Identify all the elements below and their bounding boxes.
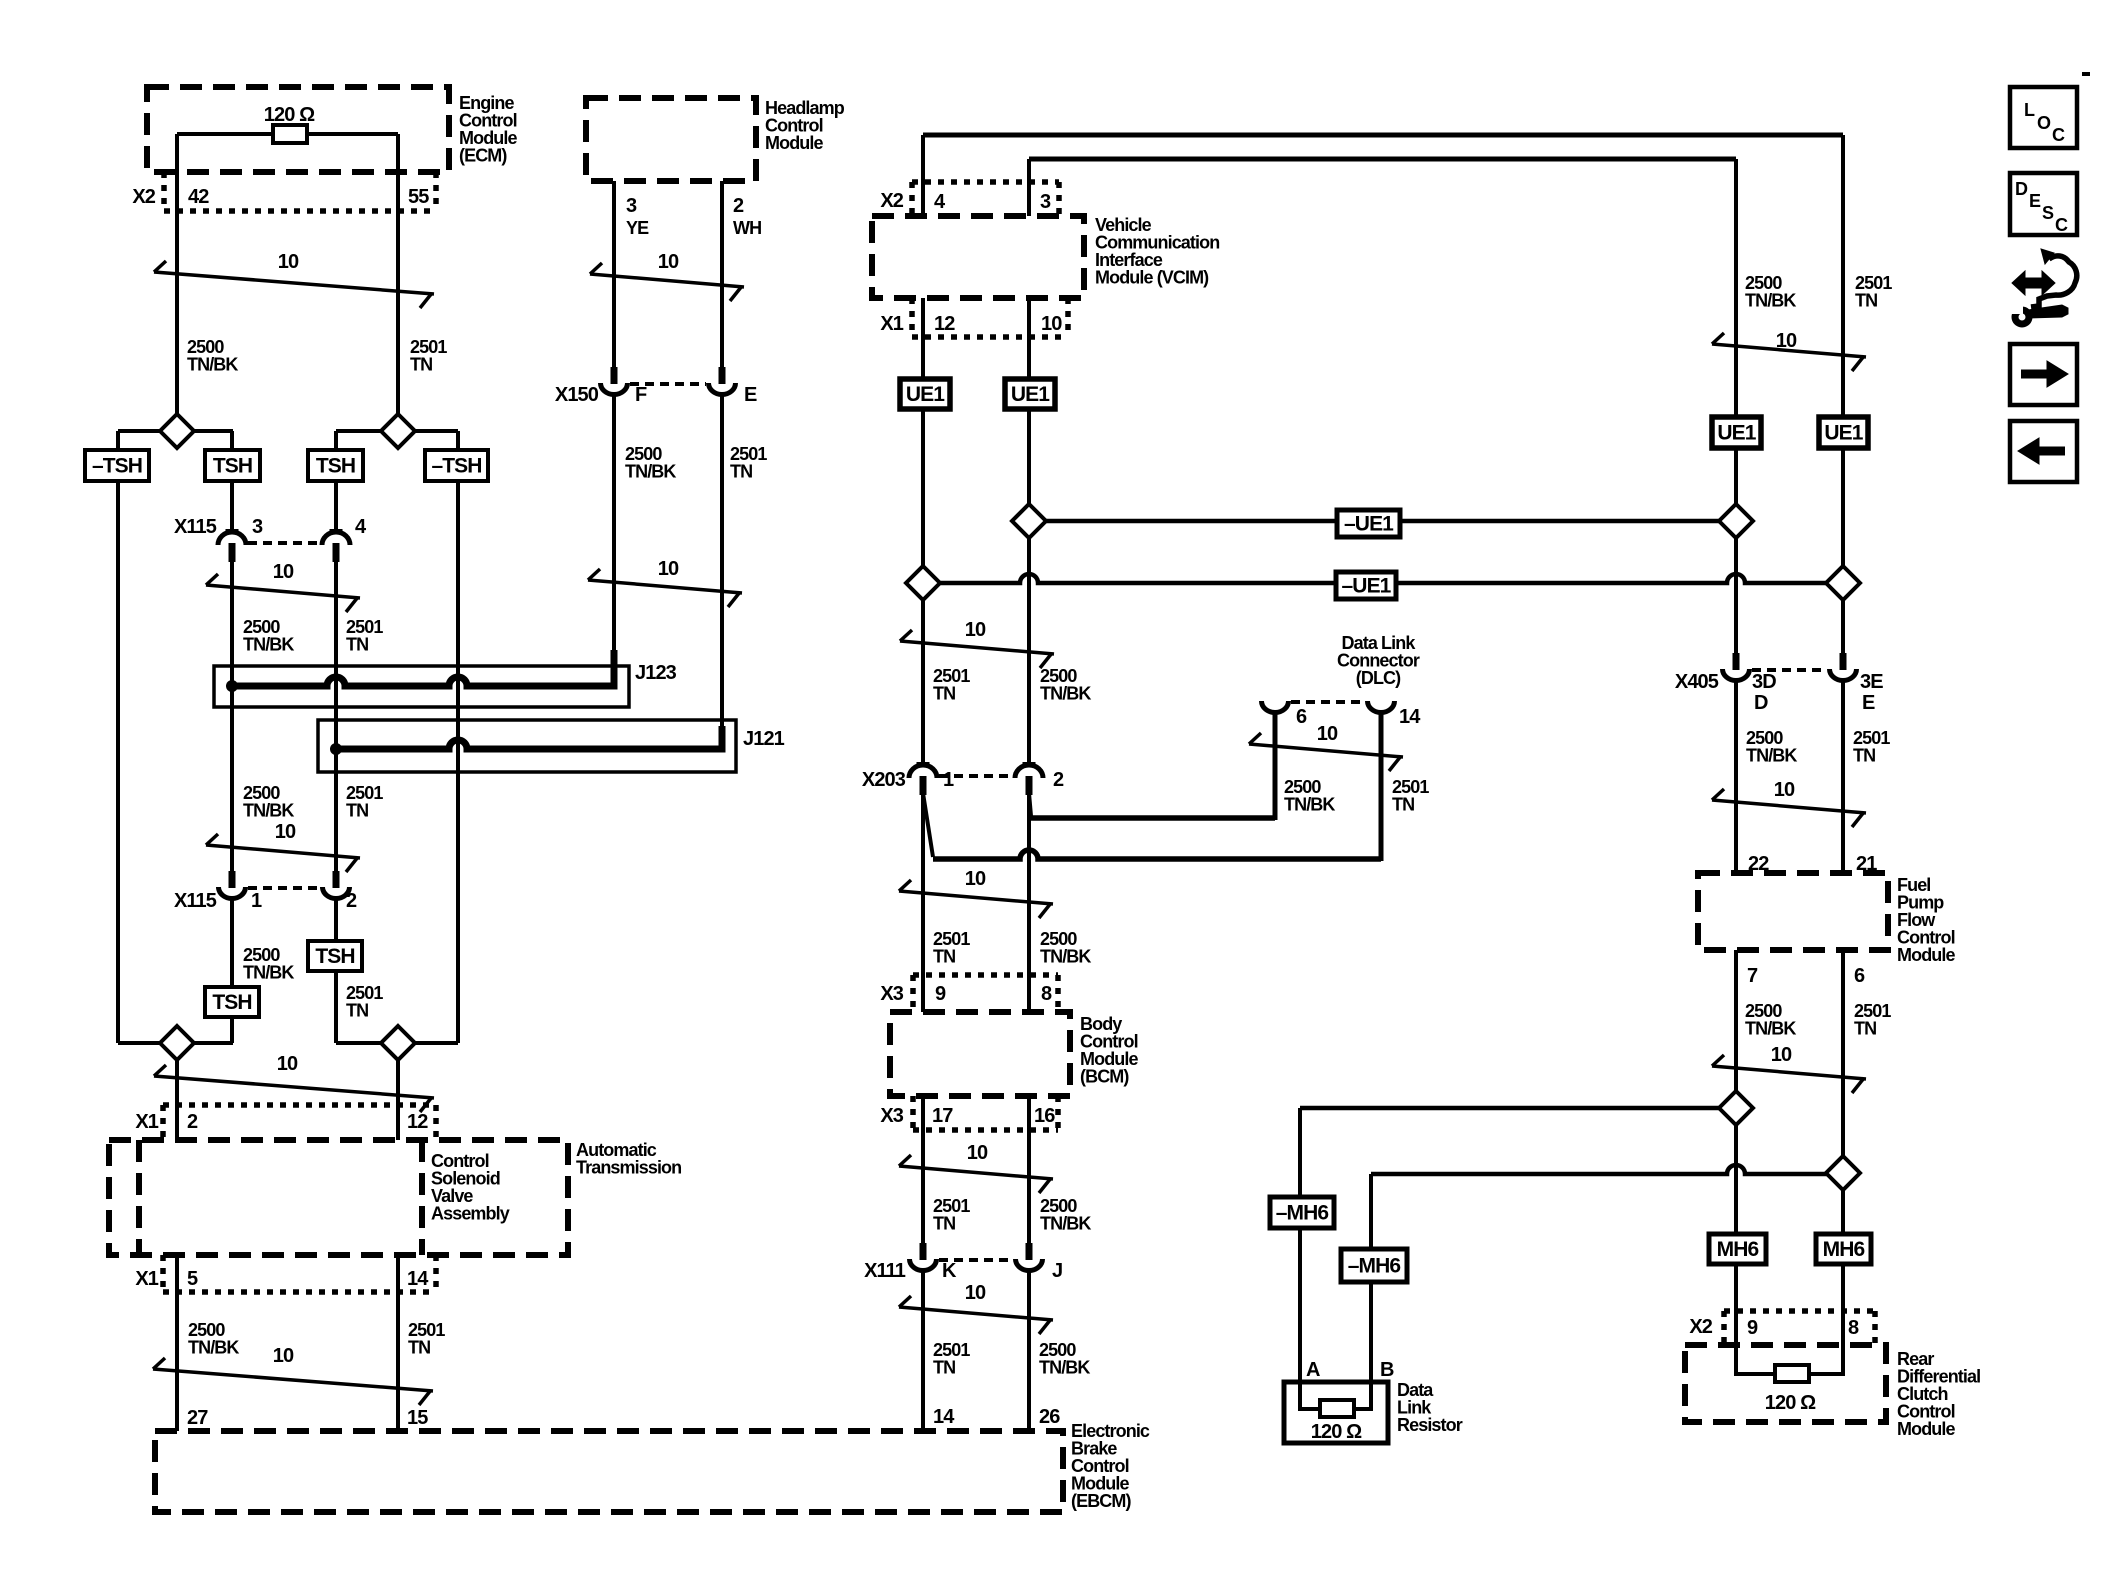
svg-text:X405: X405: [1675, 671, 1719, 693]
wire branch X203-1 jog to DLC run: [923, 793, 933, 857]
net box UE1 (right column right): [1819, 417, 1868, 448]
wire 2501 TN X111-K down to EBCM pin 14: [921, 1271, 925, 1431]
wire 2500 TN/BK X150-F down to J123: [612, 395, 616, 650]
svg-text:UE1: UE1: [1717, 422, 1756, 445]
icon button forward arrow: [2010, 344, 2077, 405]
connector row BCM X3 lower: [910, 1096, 916, 1130]
wire TSH lower-mid to splice bar S4: [334, 971, 338, 1043]
module box: Body Control Module (BCM): [890, 1012, 1070, 1096]
wire VCIM X2 pin 4 riser: [921, 135, 925, 216]
junction bus bar J121: [336, 726, 722, 749]
wire 2501 TN run to DLC pin 14: [933, 850, 1381, 859]
svg-text:D: D: [2015, 179, 2028, 199]
svg-text:14: 14: [1399, 706, 1421, 728]
wire data link resistor pin B lead: [1354, 1382, 1371, 1409]
svg-text:10: 10: [658, 558, 679, 580]
splice S5 (2500 TN/BK): [1012, 504, 1046, 538]
connector dash X405: [1752, 668, 1827, 672]
wire 2501 TN VCIM X2-4 top run to right column: [923, 133, 1843, 138]
svg-text:10: 10: [273, 561, 294, 583]
wire 2500 TN/BK run to DLC pin 6: [1031, 815, 1275, 821]
svg-text:YE: YE: [626, 218, 649, 238]
wire ECM internal horizontal to resistor: [177, 132, 273, 136]
icon button back arrow: [2010, 421, 2077, 482]
wire 2501 TN X115-2 to TSH box: [334, 899, 338, 941]
svg-text:2: 2: [346, 890, 357, 912]
svg-text:TN: TN: [933, 684, 955, 704]
inline connector DLC pin 6: [1262, 701, 1289, 713]
svg-text:J: J: [1052, 1260, 1062, 1282]
svg-text:TN/BK: TN/BK: [243, 635, 294, 655]
wire TSH lower-left to splice bar S3: [230, 1017, 234, 1043]
svg-text:2: 2: [187, 1111, 198, 1133]
splice S1 (2500 TN/BK): [160, 414, 194, 448]
wire size marker 10 (above X115 lower): [206, 845, 360, 858]
svg-text:26: 26: [1039, 1406, 1060, 1428]
connector dash X150: [630, 382, 706, 386]
wire 2500 TN/BK X111-J down to EBCM pin 26: [1027, 1271, 1031, 1431]
svg-text:27: 27: [187, 1407, 208, 1429]
svg-text:8: 8: [1041, 983, 1052, 1005]
svg-text:8: 8: [1848, 1317, 1859, 1339]
svg-text:3D: 3D: [1752, 671, 1776, 693]
inline connector X150 pin E: [719, 367, 726, 384]
wire 2500 TN/BK X115-3 down through J123: [230, 561, 234, 871]
wire -MH6 A run to splice S9: [1300, 1106, 1736, 1111]
svg-text:120 Ω: 120 Ω: [1765, 1392, 1816, 1414]
wire rear diff internal pin 8 lead: [1809, 1345, 1843, 1374]
wire 2500 TN/BK from ECM X2 pin 42 down to splice S1: [175, 134, 179, 414]
inline connector DLC pin 14: [1368, 701, 1395, 713]
svg-text:MH6: MH6: [1717, 1238, 1759, 1261]
net box TSH (lower left): [205, 987, 259, 1017]
wire splice bar S1 to TSH branches: [118, 429, 233, 433]
wire size marker 10 (below fuel pump): [1712, 1066, 1866, 1079]
svg-text:10: 10: [1771, 1044, 1792, 1066]
svg-text:L: L: [2024, 100, 2035, 120]
svg-text:4: 4: [934, 191, 946, 213]
svg-text:TN/BK: TN/BK: [1745, 1019, 1796, 1039]
page mark (top right): [2082, 72, 2090, 76]
svg-text:TN: TN: [1853, 746, 1875, 766]
wire 2500 TN/BK BCM X3-16 down to X111 J: [1027, 1096, 1031, 1243]
module box: Fuel Pump Flow Control Module: [1698, 873, 1888, 950]
splice S4 (2501 TN): [381, 1026, 415, 1060]
inline connector X115 pin 2: [333, 871, 340, 888]
svg-text:TN/BK: TN/BK: [1746, 746, 1797, 766]
svg-text:–UE1: –UE1: [1344, 513, 1394, 536]
icon quick-link double arrow: [2012, 271, 2055, 295]
svg-text:B: B: [1380, 1359, 1394, 1381]
svg-text:TN: TN: [346, 1001, 368, 1021]
svg-text:X2: X2: [132, 186, 155, 208]
net box UE1 (right): [1005, 379, 1055, 409]
wire -MH6 B to data link resistor pin B: [1369, 1282, 1373, 1382]
wire 2501 TN X150-E down to J121: [720, 395, 724, 727]
svg-text:TSH: TSH: [212, 991, 251, 1014]
wire size marker 10 (above fuel pump): [1712, 800, 1866, 813]
svg-text:10: 10: [658, 251, 679, 273]
wire splice S3 down to transmission X1 pin 2: [175, 1043, 179, 1140]
component box: Data Link Resistor: [1284, 1382, 1388, 1443]
svg-text:TN: TN: [346, 801, 368, 821]
connector row BCM X3 upper: [913, 972, 1058, 978]
svg-text:WH: WH: [733, 218, 761, 238]
wire size marker 10 (above BCM): [899, 891, 1053, 904]
svg-text:–UE1: –UE1: [1342, 575, 1392, 598]
svg-text:X3: X3: [880, 983, 903, 1005]
svg-text:16: 16: [1034, 1105, 1055, 1127]
svg-text:TN: TN: [933, 1358, 955, 1378]
inline connector X203 pin 1: [917, 762, 930, 766]
svg-text:–MH6: –MH6: [1276, 1202, 1329, 1225]
svg-text:17: 17: [932, 1105, 953, 1127]
svg-text:1: 1: [251, 890, 262, 912]
svg-text:42: 42: [188, 186, 209, 208]
connector row VCIM X1: [909, 298, 915, 337]
svg-text:(DLC): (DLC): [1356, 668, 1401, 688]
wire 2501 TN BCM X3-17 down to X111 K: [921, 1096, 925, 1243]
net box TSH (mid): [308, 450, 363, 481]
module box: Control Solenoid Valve Assembly inner edges: [136, 1140, 142, 1255]
wire -TSH left rail down to splice S3 bar: [116, 481, 120, 1043]
svg-text:Resistor: Resistor: [1397, 1415, 1463, 1435]
connector dash X115 upper: [248, 541, 320, 545]
svg-text:(EBCM): (EBCM): [1071, 1491, 1131, 1511]
wire size marker 10 (above transmission): [154, 1076, 434, 1098]
svg-text:TN: TN: [346, 635, 368, 655]
wire 2500 TN/BK right riser from top run: [1734, 159, 1738, 417]
svg-text:TN/BK: TN/BK: [243, 801, 294, 821]
svg-text:14: 14: [407, 1268, 429, 1290]
wire 2501 TN X115-4 down through J121: [334, 561, 338, 871]
wire size marker 10 (transmission out): [153, 1369, 433, 1391]
svg-text:10: 10: [1776, 330, 1797, 352]
net box UE1 (right column left): [1712, 417, 1761, 448]
svg-text:4: 4: [355, 516, 367, 538]
svg-text:TN: TN: [410, 355, 432, 375]
svg-text:10: 10: [273, 1345, 294, 1367]
module box: Automatic Transmission: [109, 1140, 568, 1255]
svg-text:TN/BK: TN/BK: [1040, 947, 1091, 967]
wire MH6 to rear diff X2 pin 8: [1841, 1264, 1845, 1345]
wire UE1 to X405 pin 3E: [1841, 448, 1845, 653]
svg-text:10: 10: [965, 619, 986, 641]
svg-text:120 Ω: 120 Ω: [1311, 1421, 1362, 1443]
svg-text:10: 10: [1041, 313, 1062, 335]
svg-text:120 Ω: 120 Ω: [264, 104, 315, 126]
svg-text:TN/BK: TN/BK: [625, 462, 676, 482]
svg-text:TN: TN: [933, 947, 955, 967]
svg-text:5: 5: [187, 1268, 198, 1290]
inline connector X115 pin 1: [229, 871, 236, 888]
svg-text:J123: J123: [635, 662, 677, 684]
wire 2501 TN right riser from top run: [1841, 135, 1845, 417]
wire TSH left down to X115 pin 3: [230, 481, 234, 531]
net box -MH6 (lower): [1341, 1249, 1407, 1282]
inline connector X203 pin 2: [1023, 762, 1036, 766]
splice S9 (2500 TN/BK lower): [1719, 1091, 1753, 1125]
inline connector X405 pin 3D: [1733, 653, 1740, 670]
svg-text:Module: Module: [765, 133, 823, 153]
icon quick-link curved route arrow: [2041, 249, 2054, 264]
wire 2501 TN X203-1 down to BCM X3 pin 9: [921, 794, 925, 1012]
wire rear diff internal pin 9 lead: [1736, 1345, 1775, 1374]
svg-text:TN/BK: TN/BK: [1039, 1358, 1090, 1378]
net box MH6 (right): [1816, 1234, 1871, 1264]
svg-text:C: C: [2052, 125, 2065, 145]
svg-text:10: 10: [277, 1053, 298, 1075]
svg-text:TN/BK: TN/BK: [1284, 795, 1335, 815]
wire 2501 TN X405-E to fuel pump pin 21: [1841, 681, 1845, 873]
svg-text:Module (VCIM): Module (VCIM): [1095, 268, 1209, 288]
splice S10 (2501 TN lower): [1826, 1156, 1860, 1190]
svg-text:Module: Module: [1897, 945, 1955, 965]
svg-text:X150: X150: [555, 384, 599, 406]
resistor R-RDM 120 ohm: [1775, 1365, 1809, 1382]
svg-text:6: 6: [1296, 706, 1307, 728]
svg-text:TN/BK: TN/BK: [1040, 684, 1091, 704]
wire WH from headlamp pin 2 to X150 E: [720, 181, 724, 367]
svg-text:TN/BK: TN/BK: [187, 355, 238, 375]
svg-text:2: 2: [1053, 769, 1064, 791]
svg-text:3: 3: [252, 516, 263, 538]
connector dash X115 lower: [248, 886, 320, 890]
svg-text:X1: X1: [135, 1268, 158, 1290]
svg-text:Assembly: Assembly: [431, 1204, 510, 1224]
wire 2500 TN/BK transmission to EBCM pin 27: [175, 1255, 179, 1431]
wire -MH6 B riser: [1369, 1174, 1373, 1249]
wire splice S4 down to transmission X1 pin 12: [396, 1043, 400, 1140]
svg-text:TSH: TSH: [316, 455, 355, 478]
wire size marker 10 (VCIM out): [900, 641, 1054, 654]
svg-text:TSH: TSH: [213, 455, 252, 478]
svg-text:X2: X2: [880, 190, 903, 212]
svg-text:TN/BK: TN/BK: [1745, 291, 1796, 311]
wire splice bar S4: [336, 1041, 458, 1045]
svg-text:55: 55: [408, 186, 429, 208]
svg-text:TN: TN: [408, 1338, 430, 1358]
svg-text:TN: TN: [933, 1214, 955, 1234]
svg-text:TN: TN: [1855, 291, 1877, 311]
net box -TSH (mid right): [425, 450, 488, 481]
svg-text:S: S: [2042, 203, 2054, 223]
svg-text:TN/BK: TN/BK: [1040, 1214, 1091, 1234]
inline connector X150 pin F: [611, 367, 618, 384]
wire -MH6 B run to splice S10: [1371, 1165, 1843, 1174]
wire size marker 10 (below BCM): [899, 1166, 1053, 1179]
resistor R-ECM 120 ohm: [273, 125, 307, 143]
icon quick-link wrench: [2015, 310, 2029, 324]
splice S8 (2501 TN right): [1826, 566, 1860, 600]
svg-text:MH6: MH6: [1823, 1238, 1865, 1261]
svg-text:C: C: [2055, 215, 2068, 235]
svg-text:K: K: [942, 1260, 957, 1282]
wire VCIM X2 pin 3 riser: [1027, 159, 1031, 216]
svg-text:F: F: [635, 384, 647, 406]
svg-text:X1: X1: [135, 1111, 158, 1133]
module box: Electronic Brake Control Module (EBCM): [155, 1431, 1063, 1512]
svg-text:12: 12: [934, 313, 955, 335]
svg-text:TN: TN: [730, 462, 752, 482]
svg-text:X3: X3: [880, 1105, 903, 1127]
svg-text:7: 7: [1747, 965, 1758, 987]
junction dot J121: [330, 743, 342, 755]
icon button DESC: [2010, 173, 2077, 235]
wire YE from headlamp pin 3 to X150 F: [612, 181, 616, 367]
svg-text:10: 10: [278, 251, 299, 273]
wire -MH6 A riser: [1298, 1108, 1302, 1197]
inline connector X115 pin 4: [330, 529, 343, 533]
net box MH6 (left): [1709, 1234, 1766, 1264]
svg-text:A: A: [1306, 1359, 1320, 1381]
icon button LOC: [2010, 87, 2077, 148]
svg-text:10: 10: [1774, 779, 1795, 801]
svg-text:10: 10: [967, 1142, 988, 1164]
junction dot J123: [226, 680, 238, 692]
wire -UE1 lower run to right column: [923, 574, 1843, 583]
splice S3 (2500 TN/BK): [160, 1026, 194, 1060]
svg-text:3: 3: [626, 195, 637, 217]
svg-text:UE1: UE1: [1011, 383, 1050, 406]
inline connector X405 pin 3E: [1840, 653, 1847, 670]
svg-text:10: 10: [1317, 723, 1338, 745]
svg-text:Transmission: Transmission: [576, 1158, 681, 1178]
wire size marker 10 (headlamp): [590, 274, 744, 287]
svg-text:6: 6: [1854, 965, 1865, 987]
connector row transmission X1 upper: [163, 1102, 436, 1108]
wire size marker 10 (right top): [1712, 344, 1866, 357]
wire splice bar S2 to TSH branches: [336, 429, 458, 433]
net box -TSH (far left): [85, 450, 149, 481]
svg-text:–TSH: –TSH: [92, 455, 142, 478]
svg-text:E: E: [2029, 191, 2041, 211]
svg-text:12: 12: [407, 1111, 428, 1133]
svg-text:–TSH: –TSH: [431, 455, 481, 478]
svg-text:TN/BK: TN/BK: [243, 963, 294, 983]
svg-text:1: 1: [943, 769, 954, 791]
svg-text:10: 10: [965, 868, 986, 890]
wire size marker 10 (above EBCM): [899, 1307, 1053, 1320]
svg-text:TSH: TSH: [315, 945, 354, 968]
svg-text:3E: 3E: [1860, 671, 1883, 693]
wire 2500 TN/BK VCIM X2-3 top run to right column: [1029, 157, 1736, 162]
svg-text:14: 14: [933, 1406, 955, 1428]
wire size marker 10 (ECM pair): [154, 272, 434, 294]
svg-text:10: 10: [965, 1282, 986, 1304]
wire UE1 to X405 pin 3D: [1734, 448, 1738, 653]
svg-text:–MH6: –MH6: [1348, 1255, 1401, 1278]
wire TSH mid down to X115 pin 4: [334, 481, 338, 531]
inline connector X115 pin 3: [226, 529, 239, 533]
wire 2501 TN from ECM X2 pin 55 down to splice S2: [396, 134, 400, 414]
splice S7 (2500 TN/BK right): [1719, 504, 1753, 538]
wire -UE1 upper run to right column: [1029, 519, 1736, 524]
connector dash X203: [939, 774, 1013, 778]
inline connector X111 pin K: [920, 1243, 927, 1260]
resistor R-DLR 120 ohm: [1320, 1400, 1354, 1417]
wire 2501 TN transmission to EBCM pin 15: [396, 1255, 400, 1431]
svg-text:X203: X203: [862, 769, 906, 791]
wire -TSH right rail down to splice S4 bar: [456, 481, 460, 1043]
wire size marker 10 (DLC): [1249, 744, 1403, 757]
net box -MH6 (upper): [1270, 1197, 1334, 1228]
junction bus bar J123: [232, 663, 614, 686]
svg-text:TN/BK: TN/BK: [188, 1338, 239, 1358]
svg-text:10: 10: [275, 821, 296, 843]
junction block J121 outline: [318, 720, 736, 772]
module box: Engine Control Module (ECM): [147, 87, 449, 172]
net box -UE1 (upper): [1337, 510, 1400, 537]
svg-text:15: 15: [407, 1407, 428, 1429]
junction block J123 outline: [214, 666, 629, 707]
connector row VCIM X2: [912, 179, 1059, 185]
wire fuel pump pin 7 down to MH6: [1734, 950, 1738, 1234]
svg-text:UE1: UE1: [1824, 422, 1863, 445]
wire fuel pump pin 6 down to MH6: [1841, 950, 1845, 1234]
svg-text:X115: X115: [174, 890, 217, 912]
svg-text:J121: J121: [743, 728, 785, 750]
splice S6 (2501 TN): [906, 566, 940, 600]
svg-text:TN: TN: [1392, 795, 1414, 815]
module box: Rear Differential Clutch Control Module: [1685, 1345, 1886, 1422]
svg-text:X111: X111: [864, 1260, 906, 1282]
svg-text:9: 9: [1747, 1317, 1758, 1339]
svg-text:(BCM): (BCM): [1080, 1067, 1129, 1087]
connector row ECM X2: [161, 172, 167, 211]
svg-text:X2: X2: [1689, 1316, 1712, 1338]
connector row rear differential X2: [1724, 1308, 1875, 1314]
connector dash X111: [939, 1258, 1013, 1262]
svg-text:3: 3: [1040, 191, 1051, 213]
net box -UE1 (lower): [1336, 572, 1396, 599]
svg-text:9: 9: [935, 983, 946, 1005]
svg-text:E: E: [1862, 692, 1875, 714]
wire -MH6 A to data link resistor pin A: [1298, 1228, 1302, 1382]
svg-text:TN: TN: [1854, 1019, 1876, 1039]
svg-text:O: O: [2037, 113, 2051, 133]
wire 2501 TN VCIM X1-12 down to splice S6: [921, 298, 925, 566]
svg-text:X115: X115: [174, 516, 217, 538]
wire branch X203-2 jog to DLC run: [1029, 793, 1031, 816]
svg-text:E: E: [744, 384, 757, 406]
module box: Headlamp Control Module: [586, 98, 756, 181]
svg-text:Module: Module: [1897, 1419, 1955, 1439]
net box TSH (lower mid): [308, 941, 362, 971]
svg-text:2: 2: [733, 195, 744, 217]
wire splice bar S3: [118, 1041, 233, 1045]
net box UE1 (left): [900, 379, 950, 409]
splice S2 (2501 TN): [381, 414, 415, 448]
wire splice S6 down to X203 pin 1: [921, 600, 925, 764]
wire 2500 TN/BK VCIM X1-10 down to splice S5: [1027, 298, 1031, 504]
wire data link resistor pin A lead: [1300, 1382, 1320, 1409]
wire size marker 10 (below X115 upper): [206, 585, 360, 598]
wire splice S5 down to X203 pin 2: [1027, 538, 1031, 764]
wire size marker 10 (headlamp lower): [588, 580, 742, 593]
net box TSH (left): [205, 450, 260, 481]
wire 2500 TN/BK X203-2 down to BCM X3 pin 8: [1027, 794, 1031, 1012]
wire MH6 to rear diff X2 pin 9: [1734, 1264, 1738, 1345]
connector row transmission X1 lower: [160, 1255, 166, 1292]
svg-text:X1: X1: [880, 313, 903, 335]
svg-text:UE1: UE1: [906, 383, 945, 406]
inline connector X111 pin J: [1026, 1243, 1033, 1260]
module box: Vehicle Communication Interface Module (VCIM): [872, 216, 1084, 298]
svg-text:D: D: [1754, 692, 1768, 714]
wire 2500 TN/BK X115-1 to TSH box: [230, 899, 234, 987]
wire 2500 TN/BK X405-D to fuel pump pin 22: [1734, 681, 1738, 873]
